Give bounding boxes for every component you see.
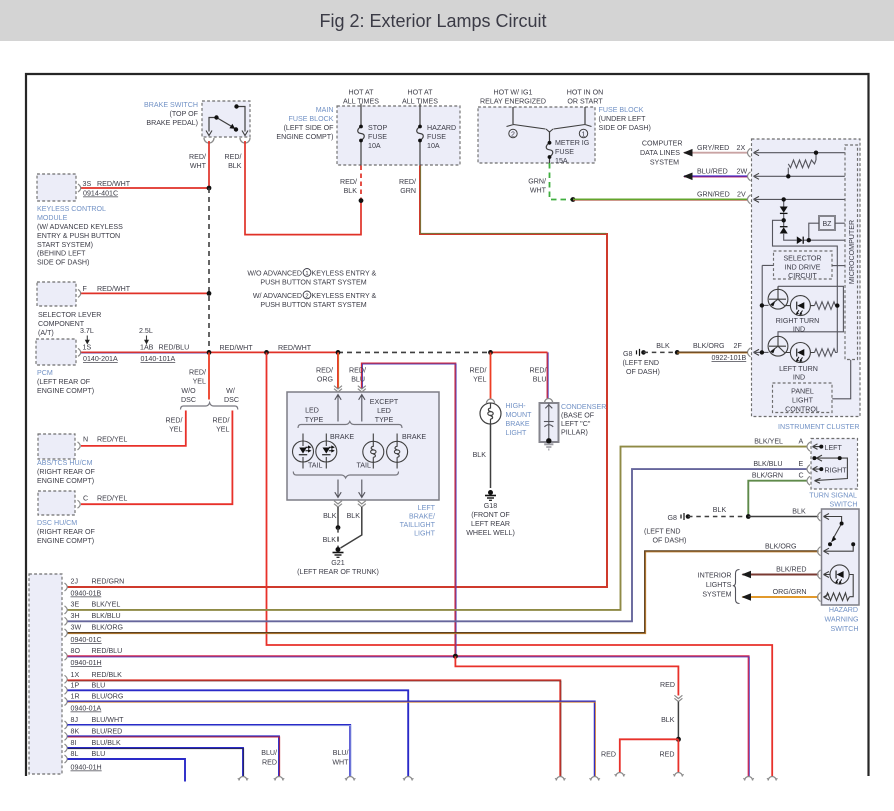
svg-text:STOP: STOP [368, 124, 387, 132]
svg-text:ENGINE COMPT): ENGINE COMPT) [37, 477, 94, 485]
svg-text:SELECTOR LEVER: SELECTOR LEVER [38, 311, 101, 319]
brake switch box [202, 101, 250, 137]
svg-text:RED/: RED/ [225, 153, 242, 161]
wire RED branch from 8O junction [455, 656, 678, 695]
meter ig fuse wire [549, 132, 551, 163]
svg-text:METER IG: METER IG [555, 139, 589, 147]
svg-text:FUSE: FUSE [555, 148, 574, 156]
dashed BLK to G21 [337, 528, 339, 547]
svg-text:0940-01C: 0940-01C [71, 636, 102, 644]
svg-text:CIRCUIT: CIRCUIT [788, 272, 817, 280]
wire RED drop right [677, 739, 679, 772]
svg-text:DSC: DSC [224, 396, 239, 404]
svg-text:1X: 1X [71, 671, 80, 679]
wire RED/YEL drop to high-mount light [490, 352, 492, 399]
bottom terminal connectors [238, 773, 778, 781]
svg-text:(TOP OF: (TOP OF [169, 110, 198, 118]
taillight bottom connector chevrons [334, 501, 342, 507]
LED indicator L2 [785, 343, 815, 363]
svg-text:RELAY ENERGIZED: RELAY ENERGIZED [480, 98, 546, 106]
arrow to computer data lines 1 [683, 149, 693, 157]
svg-text:SWITCH: SWITCH [831, 625, 859, 633]
brake switch internals [209, 107, 245, 132]
selector pin connector [78, 289, 81, 297]
svg-text:W/O ADVANCED: W/O ADVANCED [247, 269, 302, 277]
dashed BLK run [338, 351, 491, 353]
svg-text:TYPE: TYPE [375, 416, 394, 424]
svg-text:MODULE: MODULE [37, 214, 68, 222]
hazard resistor R4 [824, 593, 850, 601]
svg-text:RED/: RED/ [530, 367, 547, 375]
wire 1R BLU/ORG [68, 702, 596, 777]
turn signal pin arcs [807, 442, 810, 485]
hazard fuse symbol [417, 127, 424, 141]
svg-text:LIGHT: LIGHT [414, 530, 436, 538]
svg-text:RED/: RED/ [213, 417, 230, 425]
wire BLK/BLU from 3H [68, 469, 808, 621]
left brake/taillight box [287, 392, 439, 500]
svg-text:1: 1 [305, 271, 308, 277]
wire GRN/RED to cluster pin 2V [573, 199, 748, 202]
svg-text:GRN/: GRN/ [528, 178, 546, 186]
svg-text:BLK/BLU: BLK/BLU [753, 460, 782, 468]
svg-text:LED: LED [377, 407, 391, 415]
svg-text:3W: 3W [71, 624, 82, 632]
svg-text:LEFT TURN: LEFT TURN [779, 365, 818, 373]
svg-text:FUSE BLOCK: FUSE BLOCK [289, 115, 334, 123]
svg-text:CONTROL: CONTROL [785, 406, 820, 414]
stop fuse feed wire [360, 104, 362, 166]
svg-text:RED/YEL: RED/YEL [97, 436, 127, 444]
svg-text:BRAKE SWITCH: BRAKE SWITCH [144, 101, 198, 109]
wire RED/WHT brake switch left pin down [208, 141, 210, 188]
svg-text:HIGH-: HIGH- [506, 402, 527, 410]
svg-text:(BEHIND LEFT: (BEHIND LEFT [37, 250, 86, 258]
svg-text:C: C [799, 472, 804, 480]
wire BLK/RED interior lights [743, 574, 819, 576]
wire RED/YEL W/ DSC branch to DSC pin C [81, 411, 232, 505]
svg-text:BLK: BLK [661, 716, 675, 724]
taillight inner feed lines with up arrows [335, 395, 341, 422]
svg-text:BLK/GRN: BLK/GRN [752, 472, 783, 480]
svg-text:WARNING: WARNING [824, 616, 858, 624]
brake switch pin connectors [204, 138, 250, 143]
Q1 collector rail [778, 286, 843, 336]
Q2 base wire [754, 351, 769, 353]
dsc pin connector [78, 500, 81, 508]
svg-text:HOT AT: HOT AT [408, 89, 434, 97]
wire RED/WHT keyless 3S [80, 187, 209, 189]
svg-text:YEL: YEL [473, 376, 486, 384]
svg-text:ALL TIMES: ALL TIMES [343, 98, 379, 106]
wire RED drop left [620, 739, 679, 772]
junction node x338 [336, 350, 341, 355]
svg-text:RED/: RED/ [399, 178, 416, 186]
svg-text:BLU/: BLU/ [261, 749, 277, 757]
stop fuse symbol [358, 127, 365, 141]
svg-text:KEYLESS ENTRY &: KEYLESS ENTRY & [312, 269, 377, 277]
svg-text:(UNDER LEFT: (UNDER LEFT [599, 115, 647, 123]
svg-text:8O: 8O [71, 647, 81, 655]
svg-text:OR START: OR START [567, 98, 603, 106]
svg-text:E: E [799, 460, 804, 468]
svg-text:(LEFT SIDE OF: (LEFT SIDE OF [284, 124, 335, 132]
wire BLK high-mount to G18 [490, 424, 492, 488]
bottom-left connector box [29, 574, 62, 774]
svg-text:ENGINE COMPT): ENGINE COMPT) [276, 133, 333, 141]
taillight upper brace [298, 422, 402, 429]
svg-text:(LEFT END: (LEFT END [644, 528, 681, 536]
svg-text:(RIGHT REAR OF: (RIGHT REAR OF [37, 468, 95, 476]
svg-text:RED: RED [601, 751, 616, 759]
wire RED/BLU drop to condenser [547, 352, 550, 398]
svg-text:WHT: WHT [190, 162, 207, 170]
svg-text:RED/WHT: RED/WHT [97, 285, 131, 293]
wire GRY/RED 2X [684, 152, 748, 154]
wire BLK/GRN from pin C [748, 481, 807, 517]
svg-text:PUSH BUTTON START SYSTEM: PUSH BUTTON START SYSTEM [260, 279, 366, 287]
svg-text:BLU: BLU [533, 376, 547, 384]
svg-text:(LEFT REAR OF TRUNK): (LEFT REAR OF TRUNK) [297, 568, 379, 576]
condenser case ground [544, 444, 553, 450]
svg-text:BRAKE PEDAL): BRAKE PEDAL) [146, 119, 198, 127]
ABS/TCS HU/CM box [38, 434, 75, 459]
svg-text:2V: 2V [737, 191, 746, 199]
wire 8L BLU [68, 759, 186, 782]
svg-text:(FRONT OF: (FRONT OF [471, 511, 510, 519]
connector pin arcs [65, 583, 68, 763]
buzzer BZ box [819, 216, 835, 230]
keyless pin connector [78, 184, 81, 192]
svg-text:LED: LED [305, 407, 319, 415]
svg-text:1R: 1R [71, 692, 80, 700]
svg-text:BLK: BLK [713, 506, 727, 514]
LED indicator L1 [785, 296, 815, 316]
main fuse block box [337, 106, 460, 165]
svg-text:10A: 10A [368, 142, 381, 150]
condenser internals [544, 404, 554, 441]
svg-text:BLU: BLU [92, 750, 106, 758]
svg-text:8J: 8J [71, 716, 79, 724]
svg-text:BLK/ORG: BLK/ORG [693, 342, 725, 350]
svg-text:IND: IND [793, 374, 805, 382]
svg-text:HOT IN ON: HOT IN ON [567, 89, 604, 97]
wire RED/YEL W/O DSC branch to ABS pin N [81, 411, 186, 446]
wire BLK/YEL from 3E [68, 447, 808, 610]
svg-text:3H: 3H [71, 612, 80, 620]
wire BLK segment [677, 702, 679, 740]
svg-text:BLK: BLK [323, 512, 337, 520]
svg-text:YEL: YEL [193, 378, 206, 386]
svg-text:RED/: RED/ [470, 367, 487, 375]
svg-text:A: A [799, 438, 804, 446]
svg-text:TAIL: TAIL [308, 461, 323, 469]
svg-text:ALL TIMES: ALL TIMES [402, 98, 438, 106]
svg-text:2: 2 [511, 131, 515, 138]
bulb 3 (tail, filament) [363, 434, 384, 469]
svg-text:RED/BLU: RED/BLU [159, 344, 190, 352]
svg-text:8L: 8L [71, 750, 79, 758]
svg-text:(RIGHT REAR OF: (RIGHT REAR OF [37, 528, 95, 536]
svg-text:LIGHT: LIGHT [506, 429, 528, 437]
svg-text:15A: 15A [555, 157, 568, 165]
svg-text:0940-01H: 0940-01H [71, 764, 102, 772]
svg-text:RED: RED [660, 681, 675, 689]
svg-text:LIGHTS: LIGHTS [706, 581, 732, 589]
circled pin 2 [509, 129, 517, 137]
svg-text:3.7L: 3.7L [80, 327, 94, 335]
dashed BLK trunk line [208, 188, 210, 352]
resistor R1 [788, 160, 816, 168]
high-mount connector arc [487, 399, 495, 403]
hazard fuse feed wire [419, 104, 421, 166]
svg-text:C: C [83, 495, 88, 503]
svg-text:BLU/RED: BLU/RED [697, 167, 728, 175]
svg-text:FUSE: FUSE [368, 133, 387, 141]
hazard switch internals [824, 517, 854, 552]
svg-text:Fig 2: Exterior Lamps Circuit: Fig 2: Exterior Lamps Circuit [319, 11, 546, 31]
wire RED/BLU from PCM [80, 351, 209, 354]
svg-text:RED: RED [660, 751, 675, 759]
wire BLK taillight right exit diagonal [341, 507, 362, 548]
svg-text:RED: RED [262, 759, 277, 767]
svg-text:F: F [83, 285, 88, 293]
svg-text:BLK/BLU: BLK/BLU [92, 612, 121, 620]
taillight lower brace [293, 472, 398, 479]
svg-text:BRAKE: BRAKE [330, 433, 354, 441]
wire RED/WHT main run [209, 351, 338, 353]
svg-text:RED/WHT: RED/WHT [220, 344, 254, 352]
bulb 4 (brake, filament) [387, 434, 408, 469]
svg-text:GRN: GRN [400, 187, 416, 195]
svg-text:0140-201A: 0140-201A [83, 355, 118, 363]
fuse block 2 internals : stubs [513, 107, 585, 124]
svg-text:SYSTEM: SYSTEM [702, 591, 731, 599]
ground G21 [333, 548, 344, 558]
svg-text:0922-101B: 0922-101B [712, 354, 747, 362]
junction stop fuse splice [359, 198, 364, 203]
svg-text:G18: G18 [484, 502, 497, 510]
svg-text:HAZARD: HAZARD [829, 606, 858, 614]
hazard pin arcs [818, 512, 821, 602]
wire BLK/ORG to cluster 2F [677, 351, 747, 354]
svg-text:W/ ADVANCED: W/ ADVANCED [253, 292, 302, 300]
svg-text:DATA LINES: DATA LINES [640, 149, 680, 157]
svg-text:ENGINE COMPT): ENGINE COMPT) [37, 537, 94, 545]
svg-text:COMPUTER: COMPUTER [642, 140, 683, 148]
svg-text:BLU/ORG: BLU/ORG [92, 692, 124, 700]
svg-text:ORG: ORG [317, 376, 333, 384]
svg-text:PCM: PCM [37, 369, 53, 377]
wire RED/WHT selector F [80, 292, 209, 294]
svg-text:COMPONENT: COMPONENT [38, 320, 85, 328]
condenser box [540, 403, 559, 442]
LED bulb 2 (brake) [316, 434, 337, 469]
svg-text:BLU: BLU [92, 681, 106, 689]
instrument cluster box [752, 139, 861, 417]
svg-text:HOT AT: HOT AT [349, 89, 375, 97]
relay switch arms [507, 125, 592, 133]
svg-text:SELECTOR: SELECTOR [783, 255, 821, 263]
diode D1 down [780, 207, 788, 213]
svg-text:BLK: BLK [228, 162, 242, 170]
selector lever component box [37, 282, 76, 306]
svg-text:3S: 3S [83, 180, 92, 188]
svg-text:BLK/RED: BLK/RED [776, 565, 806, 573]
svg-text:MAIN: MAIN [316, 106, 334, 114]
svg-text:BLK: BLK [656, 342, 670, 350]
transistor Q1 [768, 286, 788, 309]
svg-text:2W: 2W [737, 167, 748, 175]
svg-text:RED/: RED/ [316, 367, 333, 375]
wire RED run to condenser drop [491, 351, 548, 353]
svg-text:GRY/RED: GRY/RED [697, 144, 729, 152]
svg-text:RED/YEL: RED/YEL [97, 495, 127, 503]
svg-text:PILLAR): PILLAR) [561, 429, 588, 437]
panel light control box [773, 383, 833, 413]
brace W/O-W/ DSC [181, 403, 238, 410]
cluster pin arrows [754, 150, 760, 356]
svg-text:YEL: YEL [216, 426, 229, 434]
svg-text:RIGHT TURN: RIGHT TURN [776, 317, 819, 325]
svg-text:IND: IND [793, 326, 805, 334]
svg-text:TYPE: TYPE [305, 416, 324, 424]
svg-text:0940-01A: 0940-01A [71, 705, 102, 713]
svg-text:RED/WHT: RED/WHT [278, 344, 312, 352]
high-mount brake light bulb [480, 403, 501, 424]
keyless control module box [37, 174, 76, 201]
svg-text:LEFT REAR: LEFT REAR [471, 520, 510, 528]
junction node x490 [488, 350, 493, 355]
svg-text:LEFT "C": LEFT "C" [561, 420, 591, 428]
svg-text:RED/GRN: RED/GRN [92, 578, 125, 586]
svg-text:(A/T): (A/T) [38, 329, 54, 337]
svg-text:2F: 2F [734, 342, 743, 350]
svg-text:RED/BLU: RED/BLU [92, 647, 123, 655]
svg-text:ENTRY & PUSH BUTTON: ENTRY & PUSH BUTTON [37, 232, 120, 240]
svg-text:RED/: RED/ [189, 153, 206, 161]
svg-text:3E: 3E [71, 601, 80, 609]
svg-text:(LEFT END: (LEFT END [623, 359, 660, 367]
svg-text:10A: 10A [427, 142, 440, 150]
taillight top connector chevrons [334, 386, 342, 392]
wire RED/BLK brake switch right pin to stop fuse [245, 141, 361, 235]
svg-text:(LEFT REAR OF: (LEFT REAR OF [37, 378, 91, 386]
wire 1P BLU [68, 690, 409, 776]
wire ORG/GRN interior lights [743, 596, 819, 598]
svg-text:BLK: BLK [344, 187, 358, 195]
LED bulb 1 [293, 434, 314, 469]
svg-text:LIGHT: LIGHT [792, 397, 814, 405]
svg-text:OF DASH): OF DASH) [653, 537, 687, 545]
svg-text:KEYLESS CONTROL: KEYLESS CONTROL [37, 205, 106, 213]
svg-text:ABS/TCS HU/CM: ABS/TCS HU/CM [37, 459, 93, 467]
svg-text:2J: 2J [71, 578, 79, 586]
svg-text:FUSE BLOCK: FUSE BLOCK [599, 106, 644, 114]
svg-text:HOT W/ IG1: HOT W/ IG1 [494, 89, 533, 97]
wire RED/ORG drop into taillight box [337, 352, 340, 388]
wire 1X RED/BLK [68, 680, 562, 776]
wire RED/YEL drop to DSC brace [208, 352, 210, 399]
svg-text:SIDE OF DASH): SIDE OF DASH) [37, 259, 89, 267]
2V chain verticals [762, 199, 851, 398]
svg-text:1: 1 [582, 131, 586, 138]
wire 8I BLU/BLK [68, 748, 244, 776]
hazard pin arrows [824, 514, 830, 601]
circled pin 1 [579, 129, 587, 137]
wire BLK to hazard switch [748, 516, 818, 518]
interior lights brace [733, 570, 740, 604]
svg-text:OF DASH): OF DASH) [626, 368, 660, 376]
svg-text:G21: G21 [331, 559, 344, 567]
svg-text:INSTRUMENT CLUSTER: INSTRUMENT CLUSTER [778, 423, 859, 431]
3.7L arrow [86, 336, 88, 342]
svg-text:BLK: BLK [323, 536, 337, 544]
svg-text:W/: W/ [226, 387, 235, 395]
wire RED/BLU taillight to 8O junction [362, 363, 456, 656]
svg-text:BRAKE: BRAKE [402, 433, 426, 441]
transistor Q2 [768, 336, 788, 356]
svg-text:1S: 1S [83, 344, 92, 352]
svg-text:MICROCOMPUTER: MICROCOMPUTER [848, 220, 856, 284]
ground G8 first [637, 349, 646, 356]
wire BLK/ORG from 3W to hazard [68, 551, 819, 634]
selector ind drive circuit box [774, 251, 833, 279]
svg-text:0940-01B: 0940-01B [71, 590, 102, 598]
turn signal switch box [811, 439, 858, 490]
svg-text:BLU/WHT: BLU/WHT [92, 716, 125, 724]
abs pin connector [78, 442, 81, 450]
svg-text:1AB: 1AB [140, 344, 154, 352]
junction blk [336, 525, 341, 530]
svg-text:RED/BLK: RED/BLK [92, 671, 123, 679]
svg-text:MOUNT: MOUNT [506, 411, 533, 419]
wire GRN/WHT dashed [550, 163, 574, 200]
svg-text:N: N [83, 436, 88, 444]
svg-text:LEFT: LEFT [418, 504, 436, 512]
svg-text:RED/WHT: RED/WHT [97, 180, 131, 188]
svg-text:W/O: W/O [181, 387, 196, 395]
svg-text:EXCEPT: EXCEPT [370, 398, 399, 406]
svg-text:DSC: DSC [181, 396, 196, 404]
dashed BLK from G8 second [688, 516, 748, 518]
wire 8O RED/BLU [68, 656, 750, 776]
wire RED/BLK dashed from stop fuse [360, 166, 362, 201]
svg-text:IND DRIVE: IND DRIVE [785, 264, 821, 272]
junction keyless [207, 186, 212, 191]
wire 8K BLU/RED [68, 736, 280, 776]
wire 8J BLU/WHT [68, 725, 351, 776]
wire RED/GRN from hazard fuse to pin 2J [68, 166, 608, 588]
taillight exit lines with down arrows [335, 480, 341, 498]
cluster internal rails [754, 153, 845, 200]
svg-text:RED/: RED/ [189, 369, 206, 377]
svg-text:2X: 2X [737, 144, 746, 152]
svg-text:(W/ ADVANCED KEYLESS: (W/ ADVANCED KEYLESS [37, 223, 123, 231]
hazard warning switch box [822, 509, 860, 605]
svg-text:WHT: WHT [332, 759, 349, 767]
hazard indicator lamp [824, 565, 854, 597]
svg-text:RIGHT: RIGHT [825, 467, 848, 475]
dashed BLK from G8 [644, 351, 678, 353]
svg-text:1P: 1P [71, 681, 80, 689]
microcomputer box [845, 145, 858, 360]
brake switch pin arrows [206, 131, 248, 136]
arrow to computer data lines 2 [683, 173, 693, 181]
wire RED long feed from node x266 to bottom right [267, 352, 773, 776]
pcm pin connector [78, 348, 81, 356]
PCM box [36, 339, 76, 365]
